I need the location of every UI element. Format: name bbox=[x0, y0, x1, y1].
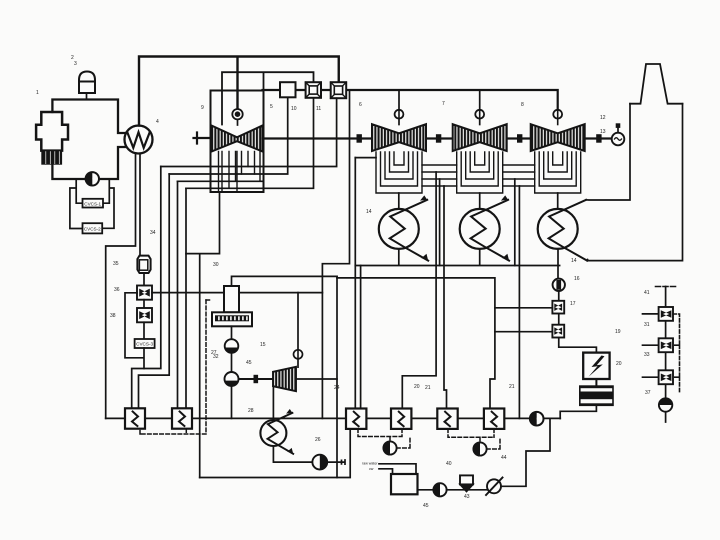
wire LP3 drain to feed line bbox=[518, 186, 520, 418]
cooling water return from tower bbox=[587, 104, 682, 261]
BFP turbine valve bbox=[294, 293, 303, 368]
wire condensate main bbox=[337, 278, 495, 409]
LP3 stop valve bbox=[553, 110, 562, 125]
reactor vessel 1 bbox=[36, 112, 68, 151]
reactor coolant pump bbox=[86, 172, 99, 185]
wire HP exhaust down bbox=[186, 192, 220, 478]
condensate valve 17b bbox=[552, 325, 564, 338]
BFP shaft bbox=[239, 378, 274, 380]
coupling 4 bbox=[596, 134, 601, 143]
wire LP steam header bbox=[263, 90, 558, 111]
shaft HP-LP1 bbox=[263, 137, 373, 139]
wire makeup to condensate line bbox=[501, 418, 550, 486]
valve 33 bbox=[643, 338, 674, 352]
extraction bus line 4 bbox=[186, 98, 314, 189]
svg-text:CVCS-1: CVCS-1 bbox=[84, 201, 101, 206]
HP turbine 9 bbox=[212, 126, 263, 152]
wire gland condenser to pump 29 bbox=[273, 446, 312, 462]
coupling 3 bbox=[517, 134, 522, 143]
coupling 2 bbox=[436, 134, 441, 143]
LP heater 2 bbox=[172, 408, 192, 428]
heater drains dashed A-B bbox=[358, 429, 410, 448]
svg-text:1: 1 bbox=[36, 90, 39, 96]
svg-text:38: 38 bbox=[110, 313, 116, 319]
wire pump29 out bbox=[327, 460, 345, 464]
transformer 19 bbox=[583, 353, 609, 379]
wire main steam header bbox=[139, 57, 339, 126]
condenser 1 bbox=[379, 195, 428, 260]
svg-text:28: 28 bbox=[248, 408, 254, 414]
wire LP2 shell drain to heater B bbox=[402, 172, 436, 408]
LP2 exhaust to condenser bbox=[479, 193, 481, 209]
svg-text:4: 4 bbox=[156, 119, 159, 125]
svg-text:41: 41 bbox=[644, 290, 650, 296]
deaerator column bbox=[224, 286, 239, 312]
battery 20 bbox=[579, 385, 614, 406]
svg-text:34: 34 bbox=[150, 230, 156, 236]
wire bypass loop bbox=[125, 293, 144, 369]
wire deaerator feed line bbox=[152, 292, 322, 294]
svg-text:24: 24 bbox=[334, 385, 340, 391]
svg-text:7: 7 bbox=[442, 101, 445, 107]
letdown box 34 bbox=[135, 339, 155, 348]
svg-text:33: 33 bbox=[644, 352, 650, 358]
condensate valve 17a bbox=[552, 301, 564, 314]
heater drains dashed C-D bbox=[448, 429, 500, 449]
svg-text:13: 13 bbox=[600, 129, 606, 135]
BFP turbine 15 bbox=[273, 367, 296, 391]
LP heater D bbox=[484, 409, 504, 429]
extraction bus line 3 bbox=[178, 180, 264, 182]
svg-text:16: 16 bbox=[574, 276, 580, 282]
wire LP1 outer shell left / drain to heater A bbox=[354, 158, 356, 408]
svg-text:45: 45 bbox=[423, 503, 429, 509]
valve 38 bbox=[137, 308, 152, 322]
reheater box 12 bbox=[331, 82, 347, 98]
svg-text:11: 11 bbox=[316, 106, 321, 112]
CVCS box 2 bbox=[83, 223, 103, 233]
cooling water out to tower bbox=[586, 104, 630, 200]
svg-text:14: 14 bbox=[366, 209, 372, 215]
wire hot reheat branch bbox=[222, 72, 314, 124]
pressurizer 3 bbox=[79, 72, 95, 100]
LP turbine 1 bbox=[372, 124, 426, 151]
svg-text:21: 21 bbox=[509, 384, 515, 390]
wire aux steam down bbox=[336, 276, 338, 477]
column top ticks bbox=[656, 286, 676, 288]
cooling tower 18 bbox=[630, 64, 683, 104]
makeup pump 42 bbox=[433, 483, 446, 496]
reheater box 11 bbox=[306, 82, 321, 98]
svg-text:45: 45 bbox=[246, 360, 252, 366]
wire battery to feed line bbox=[560, 406, 596, 418]
wire valve17a to heater D bbox=[495, 308, 553, 332]
wire deaerator to pump 20 bbox=[231, 326, 233, 339]
wire bus3 to heater2 bbox=[177, 181, 179, 408]
svg-text:17: 17 bbox=[570, 301, 576, 307]
moisture separator box 10 bbox=[280, 82, 296, 97]
valve column dashed bypass bbox=[673, 314, 680, 394]
svg-text:9: 9 bbox=[201, 105, 204, 111]
svg-text:6: 6 bbox=[359, 102, 362, 108]
column pump 37 bbox=[659, 398, 672, 422]
wire BFP turbine exhaust bbox=[296, 378, 337, 380]
HP turbine extraction drops bbox=[219, 152, 261, 193]
wire bus1 to heater1 bbox=[132, 167, 161, 409]
LP1 shell connect bbox=[355, 157, 376, 159]
wire bus4 to heater2 bbox=[185, 188, 187, 408]
heater drain pump 44 bbox=[473, 442, 486, 455]
wire CVCS loop bbox=[70, 179, 114, 229]
shaft LP3-generator bbox=[585, 137, 612, 139]
deaerator drain dashed bbox=[140, 300, 212, 434]
condenser 2 bbox=[460, 195, 509, 260]
wire condenser hotwell header bbox=[355, 249, 559, 266]
steam generator 4 bbox=[125, 126, 153, 154]
shaft LP1-LP2 bbox=[426, 137, 453, 139]
svg-text:36: 36 bbox=[114, 287, 120, 293]
LP heater A bbox=[346, 409, 366, 429]
LP turbine 3 bbox=[531, 124, 585, 151]
wire to gland condenser bbox=[272, 386, 274, 420]
wire pump to filter bbox=[447, 489, 487, 491]
valve 37 bbox=[643, 370, 674, 384]
svg-text:10: 10 bbox=[291, 106, 297, 112]
shaft LP2-LP3 bbox=[507, 137, 531, 139]
svg-text:19: 19 bbox=[615, 329, 621, 335]
valve 36 bbox=[137, 286, 152, 300]
deaerator tank 30 bbox=[212, 312, 252, 326]
LP heater 1 bbox=[125, 408, 145, 428]
svg-text:44: 44 bbox=[501, 455, 507, 461]
svg-text:31: 31 bbox=[644, 322, 650, 328]
blowdown vessel 35 bbox=[137, 256, 150, 273]
svg-text:20: 20 bbox=[616, 361, 622, 367]
svg-text:30: 30 bbox=[213, 262, 219, 268]
wire bus2 to heater1 bbox=[139, 174, 170, 408]
condenser 3 bbox=[538, 200, 587, 261]
wire condensate drop to heater A right bbox=[360, 266, 362, 409]
condensate booster pump 20 bbox=[225, 339, 239, 353]
LP1-LP2 crossover pipes bbox=[422, 165, 457, 186]
wire transformer-battery bbox=[595, 379, 597, 385]
wire drain line y477 bbox=[200, 429, 351, 478]
LP2 stop valve bbox=[475, 90, 484, 125]
wire LP1 outer shell right bbox=[439, 179, 441, 266]
svg-text:43: 43 bbox=[464, 494, 470, 500]
wire SG blowdown bbox=[139, 153, 141, 255]
wire header drain down bbox=[322, 90, 349, 418]
heater drain pump 40 bbox=[383, 441, 396, 454]
HP governor valve bbox=[232, 109, 242, 125]
svg-text:37: 37 bbox=[645, 390, 651, 396]
svg-text:CVCS-2: CVCS-2 bbox=[84, 226, 101, 231]
generator 13 bbox=[612, 123, 625, 145]
wire drain to heater C bbox=[444, 186, 447, 409]
wire condensate treatment column bbox=[665, 287, 667, 399]
svg-text:20: 20 bbox=[414, 384, 420, 390]
wire tank to pump bbox=[418, 489, 434, 491]
svg-text:14: 14 bbox=[571, 258, 577, 264]
main feed pump 28 bbox=[530, 412, 544, 426]
svg-text:3: 3 bbox=[74, 61, 77, 67]
svg-text:CVCS-3: CVCS-3 bbox=[136, 342, 153, 347]
wire condenser3 downcomer bbox=[557, 249, 559, 279]
LP1 extraction nest bbox=[376, 152, 422, 193]
wire feedwater riser to SG bbox=[106, 153, 136, 419]
wire pump20 to BFP bbox=[231, 353, 233, 372]
wire primary loop bbox=[52, 100, 124, 180]
svg-text:40: 40 bbox=[446, 461, 452, 467]
reactor core hatched block bbox=[41, 151, 62, 165]
shaft left end bbox=[194, 133, 211, 144]
HP turbine casing bbox=[211, 91, 264, 193]
LP3 extraction nest bbox=[535, 152, 581, 193]
wire valve38 to box 34 bbox=[143, 322, 145, 339]
coupling 1 bbox=[357, 134, 362, 143]
wire BFP discharge bbox=[231, 386, 233, 418]
boiler feed pump 27 bbox=[225, 372, 239, 386]
wire pump to valves bbox=[559, 291, 597, 353]
CVCS box 1 bbox=[83, 199, 104, 208]
wire feedwater main bbox=[106, 417, 561, 419]
gland steam condenser 26 bbox=[260, 409, 293, 454]
svg-text:26: 26 bbox=[315, 437, 321, 443]
svg-text:5: 5 bbox=[270, 104, 273, 110]
gland condensate pump 29 bbox=[312, 455, 327, 470]
svg-text:35: 35 bbox=[113, 261, 119, 267]
makeup tank bbox=[391, 474, 418, 494]
valve 31 bbox=[643, 307, 674, 321]
wire vessel to valve 36 bbox=[143, 273, 145, 286]
wire LP3 shell left bbox=[514, 179, 516, 266]
LP2-LP3 crossover pipes bbox=[503, 165, 535, 186]
LP2 extraction nest bbox=[457, 152, 503, 193]
makeup text bbox=[362, 462, 378, 472]
svg-text:cw: cw bbox=[369, 467, 374, 471]
extraction bus line 1 bbox=[161, 98, 337, 166]
svg-text:raw water: raw water bbox=[362, 462, 378, 466]
LP turbine 2 bbox=[453, 124, 507, 151]
filter 43 bbox=[460, 475, 473, 491]
svg-text:15: 15 bbox=[260, 342, 266, 348]
deaerator riser bbox=[232, 276, 338, 286]
LP heater B bbox=[391, 409, 411, 429]
extraction bus line 2 bbox=[169, 97, 288, 174]
makeup control valve bbox=[486, 478, 503, 496]
LP1 exhaust to condenser bbox=[398, 193, 400, 209]
svg-text:12: 12 bbox=[600, 115, 606, 121]
svg-text:32: 32 bbox=[213, 354, 219, 360]
LP heater C bbox=[437, 409, 457, 429]
LP3 exhaust to condenser bbox=[557, 193, 559, 209]
hotwell pump 16 bbox=[553, 279, 565, 291]
svg-text:8: 8 bbox=[521, 102, 524, 108]
makeup water inlet lines bbox=[379, 464, 416, 474]
BFP coupling bbox=[254, 375, 259, 383]
LP1 stop valve bbox=[395, 90, 404, 125]
wire valve36 to valve38 bbox=[143, 300, 145, 308]
svg-text:21: 21 bbox=[425, 385, 431, 391]
